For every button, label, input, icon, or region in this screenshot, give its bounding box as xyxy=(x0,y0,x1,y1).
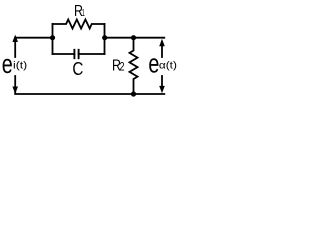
node B junction dot (right of loop) xyxy=(102,35,107,40)
svg-text:e: e xyxy=(2,49,13,79)
capacitor C leads (bottom branch) xyxy=(53,53,105,55)
wire: parallel-loop right vertical xyxy=(104,24,106,54)
wire: mid rail left segment (input top to node A) xyxy=(15,37,52,39)
node: R2 bottom junction dot xyxy=(131,91,136,96)
svg-text:i(t): i(t) xyxy=(13,61,27,72)
capacitor C left plate xyxy=(73,50,75,58)
svg-text:1: 1 xyxy=(82,7,85,19)
svg-text:e: e xyxy=(148,49,159,79)
wire: output arrow line lower part xyxy=(161,76,163,88)
svg-text:2: 2 xyxy=(119,60,124,74)
arrowhead: input up arrow xyxy=(12,35,18,42)
capacitor C right plate xyxy=(78,50,80,58)
arrowhead: output up arrow xyxy=(159,39,165,46)
wire: input left vertical (lower part) xyxy=(14,76,16,93)
resistor R2 (vertical with leads) xyxy=(130,38,138,94)
arrowhead: output down arrow xyxy=(159,86,165,93)
arrowhead: input down arrow xyxy=(12,87,18,94)
node A junction dot (left of loop) xyxy=(50,35,55,40)
wire: output arrow line upper part xyxy=(161,42,163,57)
svg-text:α(t): α(t) xyxy=(159,61,177,72)
wire: input left vertical (upper part) xyxy=(14,39,16,58)
svg-text:C: C xyxy=(72,58,83,79)
wire: mid rail right segment (node B to output) xyxy=(105,37,165,39)
wire: parallel-loop left vertical xyxy=(52,24,54,54)
wire: bottom rail xyxy=(15,93,164,95)
node: R2 top junction dot xyxy=(131,35,136,40)
resistor R1 (with leads on top branch) xyxy=(53,20,105,29)
